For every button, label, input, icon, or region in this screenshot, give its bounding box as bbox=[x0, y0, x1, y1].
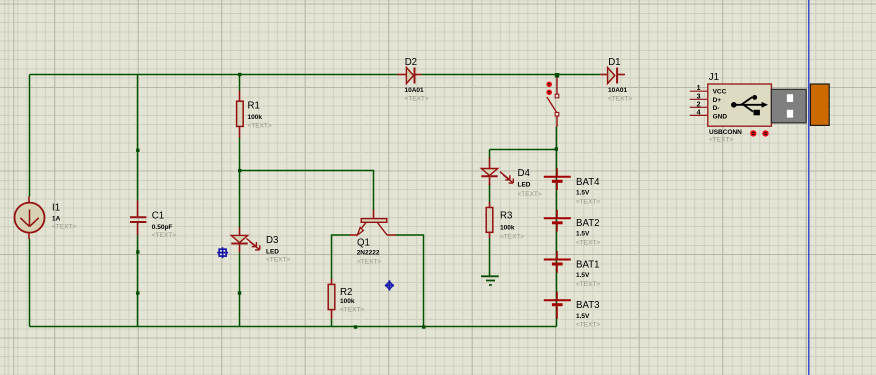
svg-text:<TEXT>: <TEXT> bbox=[608, 96, 632, 103]
junction dot at D4 branch / battery node bbox=[555, 147, 558, 150]
svg-text:LED: LED bbox=[266, 248, 279, 255]
J1 red terminal dot left bbox=[750, 130, 756, 136]
diode D1 bbox=[600, 57, 632, 102]
svg-text:<TEXT>: <TEXT> bbox=[248, 123, 272, 130]
USB metal shell bbox=[771, 89, 806, 123]
pin 3 bbox=[690, 98, 708, 100]
junction dot at R1 bottom / base wire node bbox=[238, 169, 241, 172]
battery BAT2 bbox=[544, 210, 601, 247]
svg-text:BAT4: BAT4 bbox=[576, 177, 600, 188]
svg-text:10A01: 10A01 bbox=[405, 87, 425, 94]
svg-text:100k: 100k bbox=[248, 114, 263, 121]
USB trident icon bbox=[734, 97, 764, 111]
wire: R2 bottom to rail bbox=[331, 319, 333, 327]
svg-text:D3: D3 bbox=[266, 235, 278, 246]
svg-text:<TEXT>: <TEXT> bbox=[340, 307, 364, 314]
svg-text:<TEXT>: <TEXT> bbox=[152, 232, 176, 239]
junction dot on bottom rail left of collector bbox=[354, 325, 357, 328]
pin 2 bbox=[690, 106, 708, 108]
wire: bottom rail bbox=[30, 326, 557, 328]
svg-text:I1: I1 bbox=[52, 203, 60, 214]
svg-text:LED: LED bbox=[518, 182, 531, 189]
junction dot on C1 branch lower bbox=[136, 291, 139, 294]
svg-text:USBCONN: USBCONN bbox=[709, 129, 742, 136]
resistor R1 bbox=[237, 91, 272, 138]
junction dot on C1 branch upper bbox=[136, 149, 139, 152]
LED D3 bbox=[231, 227, 290, 263]
svg-text:R1: R1 bbox=[248, 101, 260, 112]
LED D4 bbox=[481, 158, 542, 199]
capacitor C1 bbox=[130, 201, 176, 239]
sheet border (blue page edge) bbox=[808, 0, 810, 375]
svg-text:<TEXT>: <TEXT> bbox=[500, 234, 524, 241]
svg-text:2N2222: 2N2222 bbox=[357, 249, 380, 256]
blue origin marker near R2 bbox=[385, 280, 394, 290]
svg-text:1: 1 bbox=[697, 85, 701, 92]
svg-text:<TEXT>: <TEXT> bbox=[576, 240, 600, 247]
svg-text:R2: R2 bbox=[340, 287, 352, 298]
battery BAT4 bbox=[544, 168, 601, 205]
svg-text:Q1: Q1 bbox=[357, 238, 370, 249]
svg-text:R3: R3 bbox=[500, 211, 512, 222]
svg-text:2: 2 bbox=[697, 101, 701, 108]
shell contact window lower bbox=[787, 110, 793, 118]
svg-text:BAT2: BAT2 bbox=[576, 218, 600, 229]
svg-text:10A01: 10A01 bbox=[608, 87, 628, 94]
svg-text:D-: D- bbox=[713, 105, 720, 112]
switch SW1 bbox=[547, 75, 559, 127]
svg-text:1A: 1A bbox=[52, 216, 61, 223]
USB plug orange block bbox=[810, 84, 829, 125]
junction dot at collector / bottom rail node bbox=[422, 325, 425, 328]
svg-text:D4: D4 bbox=[518, 168, 531, 179]
svg-text:<TEXT>: <TEXT> bbox=[576, 322, 600, 329]
svg-text:4: 4 bbox=[697, 109, 701, 116]
svg-text:J1: J1 bbox=[709, 72, 719, 83]
junction dot on C1 branch middle bbox=[136, 250, 139, 253]
ground bbox=[481, 276, 499, 285]
J1 red terminal dot right bbox=[762, 130, 768, 136]
svg-text:100k: 100k bbox=[340, 298, 355, 305]
svg-text:<TEXT>: <TEXT> bbox=[405, 96, 429, 103]
junction dot at R1 top rail node bbox=[238, 73, 241, 76]
J1 body bbox=[708, 84, 772, 126]
svg-text:1.5V: 1.5V bbox=[576, 190, 590, 197]
svg-text:0.50pF: 0.50pF bbox=[152, 224, 173, 231]
wire: top rail middle segment (D2 to D1) bbox=[421, 74, 600, 76]
diode D2 bbox=[397, 57, 429, 102]
svg-text:BAT1: BAT1 bbox=[576, 260, 600, 271]
svg-text:<TEXT>: <TEXT> bbox=[52, 224, 76, 231]
svg-text:GND: GND bbox=[713, 114, 728, 121]
wire: R1 / D3 branch vertical bbox=[239, 75, 241, 327]
svg-text:1.5V: 1.5V bbox=[576, 272, 590, 279]
battery BAT3 bbox=[544, 292, 601, 329]
wire: base wire from R1 junction to Q1 bbox=[240, 171, 374, 211]
svg-text:D2: D2 bbox=[405, 57, 417, 68]
resistor R3 bbox=[486, 202, 524, 241]
svg-text:1.5V: 1.5V bbox=[576, 231, 590, 238]
wire: left vertical (I1 branch) bbox=[29, 75, 31, 327]
svg-text:D+: D+ bbox=[713, 97, 722, 104]
switch actuator red dot lower bbox=[546, 90, 552, 96]
wire: emitter branch to R2 bbox=[332, 235, 351, 279]
svg-text:<TEXT>: <TEXT> bbox=[576, 281, 600, 288]
blue origin marker near D3 bbox=[217, 247, 228, 258]
resistor R2 bbox=[328, 279, 364, 319]
pin 1 bbox=[690, 90, 708, 92]
svg-text:BAT3: BAT3 bbox=[576, 300, 600, 311]
svg-text:VCC: VCC bbox=[713, 89, 727, 96]
svg-text:100k: 100k bbox=[500, 225, 515, 232]
wire: C1 branch vertical bbox=[137, 75, 139, 327]
transistor Q1 bbox=[350, 210, 396, 266]
svg-text:D1: D1 bbox=[608, 57, 620, 68]
svg-text:<TEXT>: <TEXT> bbox=[709, 136, 733, 143]
svg-text:1.5V: 1.5V bbox=[576, 313, 590, 320]
svg-text:<TEXT>: <TEXT> bbox=[266, 256, 290, 263]
battery BAT1 bbox=[544, 251, 601, 288]
wire: collector branch down to rail bbox=[396, 235, 424, 327]
pin 4 bbox=[690, 114, 708, 116]
wire: D4 branch top horizontal bbox=[490, 149, 557, 151]
wire: top rail left segment bbox=[30, 74, 398, 76]
shell contact window upper bbox=[787, 94, 793, 102]
switch actuator red dot upper bbox=[546, 82, 552, 88]
junction dot at D2/switch rail node bbox=[555, 73, 559, 77]
svg-text:<TEXT>: <TEXT> bbox=[576, 198, 600, 205]
USB connector J1 bbox=[690, 72, 829, 144]
svg-text:<TEXT>: <TEXT> bbox=[518, 191, 542, 198]
wire: switch to battery vertical bbox=[556, 127, 558, 327]
svg-text:3: 3 bbox=[697, 93, 701, 100]
current source I1 bbox=[15, 197, 77, 240]
wire: D4 branch vertical bbox=[489, 150, 491, 277]
svg-text:<TEXT>: <TEXT> bbox=[357, 259, 381, 266]
svg-text:C1: C1 bbox=[152, 211, 164, 222]
junction dot on D3 branch lower bbox=[238, 291, 241, 294]
